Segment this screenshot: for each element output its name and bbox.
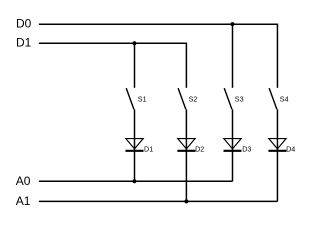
svg-text:D3: D3 bbox=[242, 145, 251, 154]
wire S2 to diode D2 to A1 bbox=[185, 109, 187, 201]
svg-text:S3: S3 bbox=[235, 94, 244, 103]
svg-text:S1: S1 bbox=[138, 94, 147, 103]
diode D4 bbox=[268, 139, 295, 154]
switch S3 bbox=[224, 88, 243, 109]
wire D1 to S1 bbox=[134, 43, 136, 88]
wire S3 to diode D3 to A0 bbox=[232, 109, 234, 181]
diode D3 bbox=[224, 139, 252, 154]
svg-text:D1: D1 bbox=[16, 35, 32, 49]
junction D1/S1 branch bbox=[132, 41, 136, 45]
svg-text:S2: S2 bbox=[189, 94, 198, 103]
junction A1/S2 branch bbox=[184, 199, 188, 203]
wire D0 corner to S4 bbox=[276, 24, 278, 88]
diode D2 bbox=[177, 139, 204, 154]
junction A0/S1 branch bbox=[132, 179, 136, 183]
wire S4 to diode D4 to A1 bbox=[276, 109, 278, 201]
svg-text:D4: D4 bbox=[286, 145, 295, 154]
switch S1 bbox=[126, 88, 146, 109]
svg-text:D0: D0 bbox=[16, 17, 32, 31]
switch S2 bbox=[178, 88, 197, 109]
wire A1 bus bbox=[39, 200, 278, 202]
svg-text:D2: D2 bbox=[195, 145, 204, 154]
wire S1 to diode D1 bbox=[134, 109, 136, 181]
svg-text:S4: S4 bbox=[280, 94, 289, 103]
svg-text:D1: D1 bbox=[144, 145, 153, 154]
wire D0 bus bbox=[39, 23, 278, 25]
switch S4 bbox=[269, 88, 288, 109]
diode D1 bbox=[126, 139, 154, 154]
svg-text:A1: A1 bbox=[16, 194, 31, 208]
wire A0 bus bbox=[39, 180, 233, 182]
wire D1 corner to S2 bbox=[185, 43, 187, 88]
junction D0/S3 branch bbox=[230, 22, 234, 26]
wire D1 bus bbox=[39, 42, 187, 44]
svg-text:A0: A0 bbox=[16, 174, 31, 188]
wire D0 to S3 bbox=[232, 24, 234, 88]
